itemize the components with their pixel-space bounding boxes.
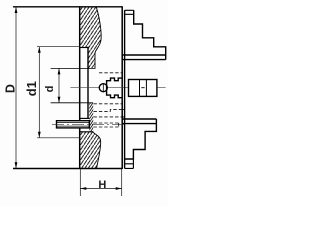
stud body bbox=[57, 121, 90, 128]
hatch top section bbox=[80, 7, 101, 69]
bore bottom line + d extension bbox=[51, 102, 94, 104]
H extension line left bbox=[79, 169, 81, 196]
d arrow top bbox=[58, 68, 61, 74]
right view left edge bbox=[124, 10, 126, 168]
dimension d line bbox=[58, 68, 60, 102]
svg-text:d1: d1 bbox=[24, 81, 39, 96]
dimension d1 extension top bbox=[37, 46, 80, 48]
top jaw cap box bbox=[125, 10, 134, 14]
H dimension line bbox=[80, 188, 121, 190]
d1 arrow top bbox=[38, 47, 41, 53]
pinion profile top bbox=[107, 78, 123, 91]
hatch mid strip bbox=[86, 94, 94, 146]
top jaw staircase bbox=[134, 10, 166, 59]
body outline: top edge + D top extension line bbox=[13, 6, 122, 8]
hidden stud hole bottom bbox=[94, 126, 119, 128]
axis centerline bbox=[70, 87, 165, 89]
H arrow right bbox=[116, 187, 122, 190]
hidden stud hole end bbox=[118, 123, 120, 127]
bottom edge + D bottom extension line bbox=[13, 168, 122, 170]
bottom jaw staircase bbox=[125, 124, 157, 159]
dimension d1 line bbox=[38, 47, 40, 138]
front face bbox=[79, 6, 81, 169]
d arrow bottom bbox=[58, 97, 61, 103]
hidden line slot bottom bbox=[94, 116, 122, 118]
stud centerline bbox=[52, 123, 124, 125]
H arrow left bbox=[80, 187, 86, 190]
hatch bottom section bbox=[80, 132, 101, 169]
hidden stud hole top bbox=[94, 122, 119, 124]
bore top line + d extension bbox=[51, 67, 96, 69]
D arrow bottom bbox=[15, 162, 18, 168]
hidden line bore back bbox=[94, 103, 122, 105]
svg-text:H: H bbox=[98, 179, 106, 191]
dimension D line bbox=[15, 7, 17, 168]
hidden line top slot bbox=[99, 72, 122, 74]
D arrow top bbox=[15, 7, 18, 13]
back face bbox=[121, 6, 123, 169]
pinion side view bbox=[129, 80, 157, 97]
slot curve boundary bottom bbox=[93, 132, 101, 169]
inner vertical (slot front wall) bbox=[87, 47, 89, 119]
svg-text:d: d bbox=[44, 86, 56, 93]
slot curve boundary top bbox=[95, 7, 101, 69]
bottom collar band bbox=[122, 119, 156, 124]
H extension line right bbox=[121, 169, 123, 196]
d1 arrow bottom bbox=[38, 132, 41, 138]
pinion circle bbox=[99, 84, 107, 92]
pinion cross vertical bbox=[102, 83, 104, 92]
jaw step edge left view bbox=[80, 47, 88, 49]
slot connector lines at back face bbox=[122, 110, 124, 117]
stud recess bottom line bbox=[80, 131, 93, 133]
bottom jaw cap box bbox=[125, 159, 134, 168]
hidden line slot step bbox=[94, 110, 122, 112]
top collar band bbox=[122, 55, 165, 60]
dimension d1 extension bottom bbox=[37, 137, 80, 139]
pinion profile bottom bbox=[107, 91, 123, 98]
stud recess top line bbox=[80, 117, 90, 119]
svg-text:D: D bbox=[3, 84, 17, 93]
